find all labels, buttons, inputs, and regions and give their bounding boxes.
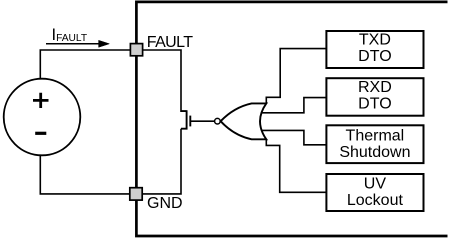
gate body of U1: [221, 103, 267, 139]
block TXD DTO: [326, 31, 423, 68]
svg-text:UV: UV: [364, 176, 387, 193]
svg-text:GND: GND: [147, 195, 183, 212]
voltage source V1: [4, 79, 81, 156]
wire: NOR input 2 to RXD DTO block: [261, 98, 326, 113]
minus sign of V1: [35, 132, 46, 135]
wire: FAULT pin to transistor drain: [142, 50, 181, 112]
current arrow for I_FAULT: [46, 40, 109, 47]
svg-text:DTO: DTO: [358, 95, 391, 112]
plus sign of V1: [33, 93, 49, 108]
wire: NOR input 1 to TXD DTO block: [266, 49, 326, 104]
gate lead wire of Q1: [190, 120, 214, 122]
transistor Q1 (open-drain output MOSFET): [181, 110, 214, 129]
output inversion bubble of U1: [215, 118, 221, 124]
block RXD DTO: [326, 78, 423, 116]
svg-text:Shutdown: Shutdown: [339, 144, 410, 161]
svg-text:Lockout: Lockout: [347, 192, 404, 209]
wire: source bottom to GND pin: [40, 155, 129, 194]
block Thermal Shutdown: [326, 125, 423, 163]
pin FAULT (terminal square): [130, 44, 142, 56]
svg-text:RXD: RXD: [358, 79, 392, 96]
pin GND (terminal square): [130, 188, 142, 200]
svg-text:TXD: TXD: [359, 31, 391, 48]
device outline (IC boundary box): [136, 2, 447, 236]
wire: source top to FAULT pin: [40, 50, 130, 79]
svg-text:FAULT: FAULT: [147, 34, 193, 51]
gate bar of Q1: [189, 116, 191, 127]
wire: NOR input 4 to UV Lockout block: [266, 139, 326, 192]
svg-text:Thermal: Thermal: [346, 128, 405, 145]
svg-text:DTO: DTO: [358, 48, 391, 65]
NOR gate U1 (4-input, mirrored, output bubble on left): [215, 103, 267, 139]
block UV Lockout: [326, 174, 423, 211]
wire: transistor source to GND pin: [142, 129, 181, 194]
wire: NOR input 3 to Thermal Shutdown block: [261, 130, 326, 144]
